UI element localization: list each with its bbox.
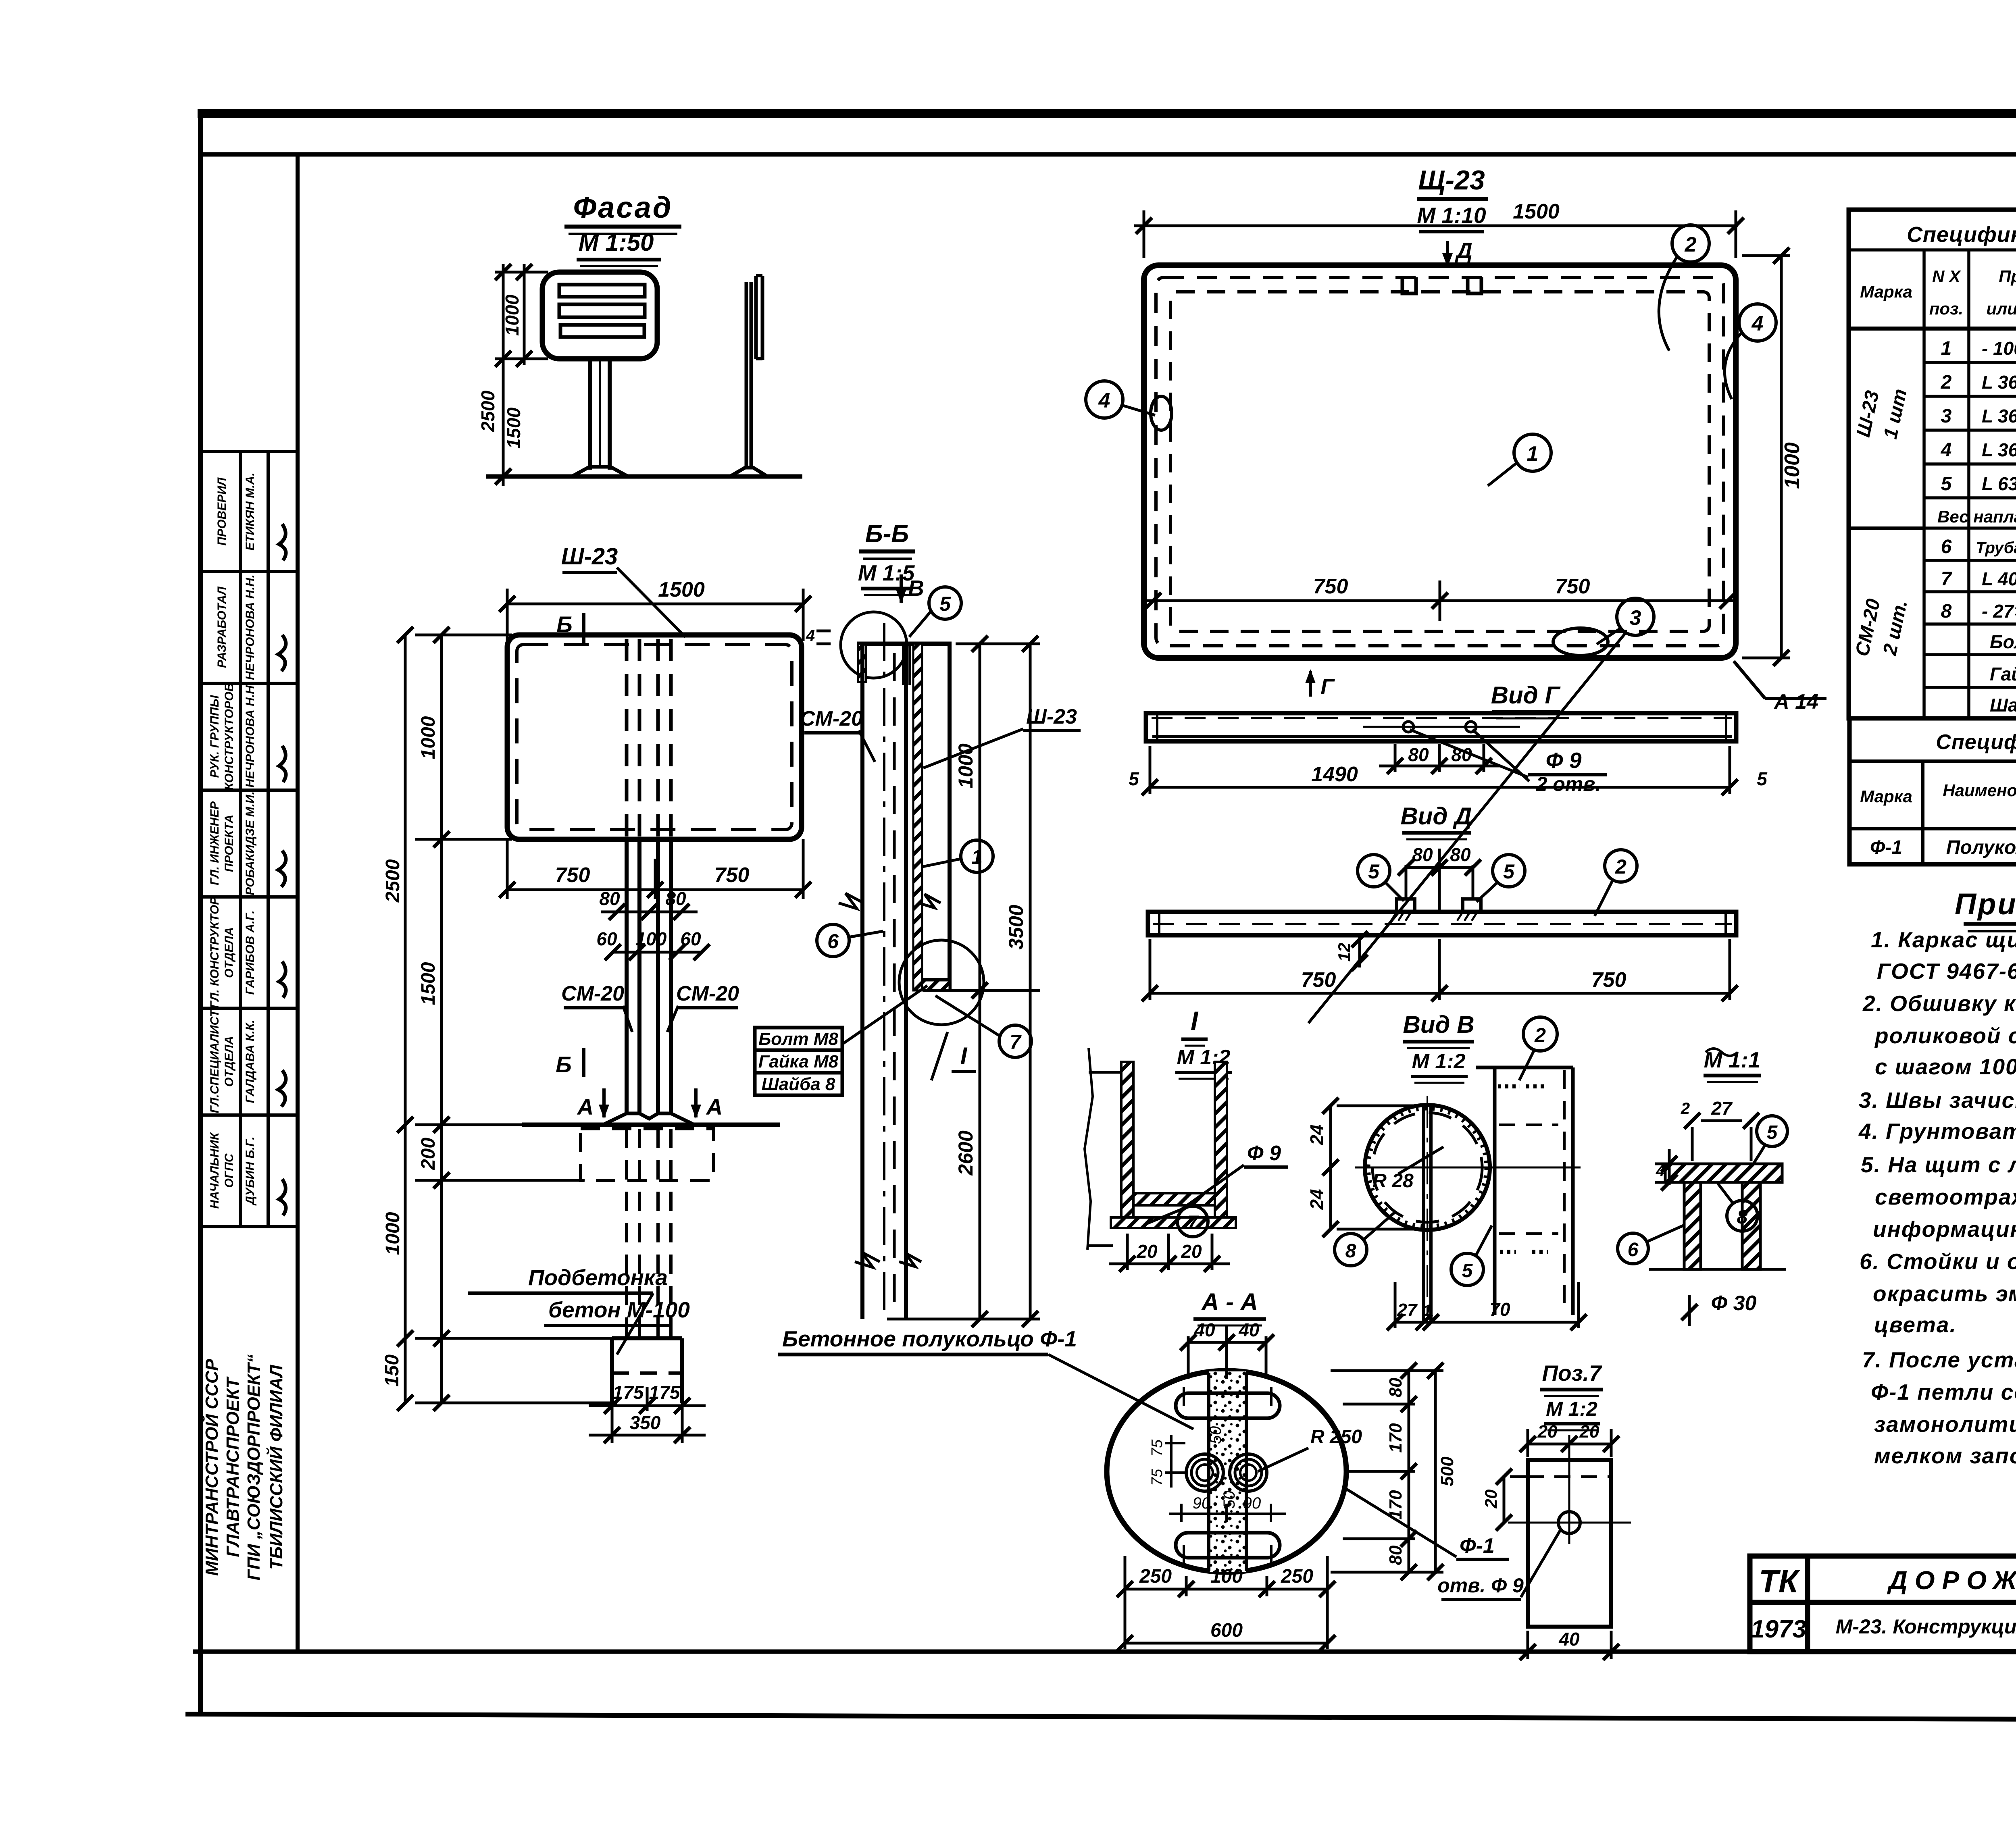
svg-text:светоотражающую пленку си: светоотражающую пленку синего цвета.	[1875, 1184, 2016, 1209]
svg-text:5: 5	[1503, 860, 1515, 883]
svg-text:ТБИЛИССКИЙ ФИЛИАЛ: ТБИЛИССКИЙ ФИЛИАЛ	[266, 1365, 286, 1570]
svg-text:М 1:50: М 1:50	[579, 229, 654, 256]
svg-text:Полукольцо: Полукольцо	[1946, 837, 2016, 858]
svg-text:ОГПС: ОГПС	[223, 1153, 236, 1188]
svg-text:М-23. Конструкция указатель: М-23. Конструкция указательного знака Ч.…	[1836, 1615, 2016, 1638]
svg-text:40: 40	[1238, 1319, 1260, 1340]
svg-text:ОТДЕЛА: ОТДЕЛА	[223, 927, 236, 978]
svg-text:1: 1	[971, 846, 983, 868]
svg-text:80: 80	[1386, 1545, 1406, 1565]
svg-text:Ф-1: Ф-1	[1870, 837, 1902, 858]
svg-text:Профиль: Профиль	[1999, 267, 2016, 286]
svg-text:24: 24	[1306, 1189, 1327, 1210]
svg-text:Поз.7: Поз.7	[1542, 1361, 1602, 1386]
svg-text:L 36×36×3: L 36×36×3	[1982, 406, 2016, 427]
svg-text:Труба Д=60,5=4: Труба Д=60,5=4	[1976, 539, 2016, 557]
svg-text:НАЧАЛЬНИК: НАЧАЛЬНИК	[208, 1132, 221, 1209]
svg-text:80: 80	[1450, 844, 1471, 865]
svg-text:2: 2	[1941, 372, 1952, 393]
svg-text:5: 5	[1767, 1122, 1778, 1143]
svg-text:КОНСТРУКТОРОВ: КОНСТРУКТОРОВ	[223, 683, 236, 790]
svg-text:А: А	[577, 1094, 594, 1119]
svg-text:ГАРИБОВ А.Г.: ГАРИБОВ А.Г.	[244, 910, 257, 995]
svg-text:150: 150	[381, 1354, 403, 1387]
svg-text:350: 350	[630, 1412, 661, 1433]
svg-text:3500: 3500	[1005, 905, 1027, 949]
svg-text:- 27×4: - 27×4	[1982, 601, 2016, 622]
svg-text:В: В	[908, 576, 924, 601]
svg-text:2600: 2600	[954, 1130, 977, 1176]
svg-text:5. На щит с лицевой сторо: 5. На щит с лицевой стороны наклеить	[1861, 1152, 2016, 1177]
svg-text:5: 5	[1462, 1260, 1473, 1282]
svg-text:175: 175	[649, 1382, 681, 1403]
svg-text:Ф 9: Ф 9	[1546, 748, 1582, 773]
svg-text:4. Грунтовать грунтом ГФ: 4. Грунтовать грунтом ГФ-0.20 ГОСТ 4056-…	[1858, 1119, 2016, 1144]
svg-text:Шайба 8: Шайба 8	[1990, 695, 2016, 716]
svg-text:ДУБИН Б.Г.: ДУБИН Б.Г.	[244, 1136, 257, 1206]
svg-text:8: 8	[1941, 601, 1952, 622]
svg-text:1973: 1973	[1751, 1615, 1806, 1643]
svg-text:1500: 1500	[418, 962, 439, 1005]
svg-text:бетон М-100: бетон М-100	[548, 1297, 690, 1322]
svg-text:роликовой сваркой прерывис: роликовой сваркой прерывистым швом	[1874, 1023, 2016, 1048]
svg-text:2: 2	[1681, 1100, 1690, 1117]
svg-text:750: 750	[714, 863, 750, 887]
svg-text:R 250: R 250	[1310, 1426, 1362, 1448]
svg-text:РАЗРАБОТАЛ: РАЗРАБОТАЛ	[215, 586, 229, 668]
svg-text:Вид Д: Вид Д	[1400, 803, 1472, 830]
svg-text:80: 80	[1412, 844, 1433, 865]
svg-text:с шагом 100-150 мм.: с шагом 100-150 мм.	[1875, 1054, 2016, 1079]
svg-text:N X: N X	[1932, 267, 1962, 286]
svg-text:1. Каркас щита варить элект: 1. Каркас щита варить электродами Э42	[1871, 927, 2016, 952]
svg-text:7: 7	[1187, 1212, 1199, 1234]
svg-text:6: 6	[1941, 536, 1952, 558]
svg-text:40: 40	[1194, 1319, 1215, 1340]
svg-text:РУК. ГРУППЫ: РУК. ГРУППЫ	[208, 695, 221, 778]
svg-text:Марка: Марка	[1860, 787, 1912, 806]
svg-text:1: 1	[1423, 1302, 1432, 1319]
svg-text:РОБАКИДЗЕ М.И.: РОБАКИДЗЕ М.И.	[244, 791, 257, 895]
svg-text:7: 7	[1941, 568, 1953, 590]
svg-text:75: 75	[1149, 1439, 1166, 1456]
svg-text:ГПИ „СОЮЗДОРПРОЕКТ“: ГПИ „СОЮЗДОРПРОЕКТ“	[244, 1354, 264, 1580]
svg-text:ГЛАВТРАНСПРОЕКТ: ГЛАВТРАНСПРОЕКТ	[223, 1376, 243, 1557]
svg-text:20: 20	[1537, 1422, 1558, 1442]
svg-text:1: 1	[1941, 338, 1952, 359]
svg-text:Вид В: Вид В	[1403, 1011, 1474, 1038]
svg-text:Ф 9: Ф 9	[1247, 1142, 1281, 1165]
svg-text:Гайка М8: Гайка М8	[1990, 664, 2016, 685]
svg-text:1: 1	[1527, 442, 1539, 466]
svg-text:А: А	[706, 1094, 723, 1119]
svg-text:1000: 1000	[502, 294, 523, 336]
svg-text:окрасить эмалью МА-12: окрасить эмалью МА-12 светло-серого	[1873, 1281, 2016, 1306]
svg-text:2500: 2500	[382, 859, 404, 903]
svg-text:Вид Г: Вид Г	[1491, 682, 1561, 709]
svg-text:5: 5	[1368, 860, 1380, 883]
svg-text:500: 500	[1437, 1456, 1457, 1486]
svg-text:5: 5	[1129, 768, 1139, 789]
svg-text:М 1:10: М 1:10	[1417, 203, 1486, 228]
svg-text:3: 3	[1941, 406, 1952, 427]
svg-text:250: 250	[1139, 1566, 1172, 1587]
svg-text:ПРОВЕРИЛ: ПРОВЕРИЛ	[215, 477, 229, 545]
svg-text:Марка: Марка	[1860, 282, 1912, 301]
svg-text:27: 27	[1711, 1098, 1733, 1119]
svg-text:20: 20	[1579, 1422, 1599, 1442]
svg-text:6: 6	[1628, 1239, 1639, 1261]
svg-text:1000: 1000	[1781, 442, 1804, 489]
svg-text:8: 8	[1737, 1207, 1748, 1228]
svg-text:М 1:5: М 1:5	[858, 560, 915, 585]
svg-text:ГАЛДАВА К.К.: ГАЛДАВА К.К.	[244, 1020, 257, 1103]
svg-text:80: 80	[1451, 744, 1472, 765]
svg-text:цвета.: цвета.	[1874, 1312, 1957, 1337]
svg-text:ДОРОЖНЫЕ ЗНАКИ: ДОРОЖНЫЕ ЗНАКИ	[1887, 1566, 2016, 1595]
svg-text:75: 75	[1149, 1469, 1166, 1486]
svg-text:1500: 1500	[1513, 200, 1560, 223]
svg-text:2: 2	[1615, 855, 1627, 878]
svg-text:информацию - из пленки бел: информацию - из пленки белого цвета.	[1873, 1217, 2016, 1242]
svg-text:750: 750	[1313, 575, 1348, 598]
svg-text:80: 80	[1408, 744, 1429, 765]
svg-text:НЕЧРОНОВА Н.Н.: НЕЧРОНОВА Н.Н.	[244, 574, 257, 680]
svg-text:40: 40	[1558, 1629, 1580, 1650]
svg-text:24: 24	[1306, 1124, 1327, 1145]
svg-text:мелком заполнителе.: мелком заполнителе.	[1874, 1443, 2016, 1468]
svg-text:50: 50	[1207, 1426, 1225, 1444]
svg-text:Примечания:: Примечания:	[1955, 887, 2016, 921]
svg-text:М 1:1: М 1:1	[1704, 1047, 1761, 1072]
svg-text:80: 80	[665, 888, 686, 909]
svg-text:3: 3	[1630, 606, 1641, 630]
svg-text:4: 4	[1098, 389, 1110, 412]
svg-text:175: 175	[613, 1382, 644, 1403]
svg-text:L 36×36×3: L 36×36×3	[1982, 372, 2016, 393]
svg-text:замонолитить бетоном М-: замонолитить бетоном М-200 на	[1874, 1412, 2016, 1437]
svg-text:8: 8	[1345, 1240, 1356, 1262]
svg-text:L 40×40×4: L 40×40×4	[1982, 568, 2016, 589]
svg-text:1000: 1000	[418, 716, 439, 759]
svg-text:5: 5	[1757, 768, 1768, 789]
svg-text:ЕТИКЯН М.А.: ЕТИКЯН М.А.	[244, 472, 257, 551]
svg-text:Шайба 8: Шайба 8	[762, 1074, 835, 1094]
svg-text:поз.: поз.	[1929, 299, 1963, 318]
svg-text:80: 80	[599, 888, 620, 909]
svg-text:Спецификация сборных фундаме: Спецификация сборных фундаментов	[1936, 730, 2016, 754]
svg-text:170: 170	[1386, 1423, 1406, 1453]
svg-text:60: 60	[596, 928, 617, 949]
svg-text:А 14: А 14	[1773, 690, 1818, 714]
svg-text:2: 2	[1685, 233, 1697, 256]
svg-text:750: 750	[1301, 968, 1336, 992]
svg-text:200: 200	[418, 1138, 439, 1170]
svg-text:100: 100	[636, 928, 667, 949]
svg-text:Болт М8: Болт М8	[758, 1029, 838, 1049]
svg-text:1500: 1500	[503, 407, 524, 449]
svg-text:750: 750	[555, 863, 590, 887]
svg-text:ГОСТ 9467-60. h шв = 3 мм.: ГОСТ 9467-60. h шв = 3 мм.	[1877, 959, 2016, 984]
svg-text:4: 4	[806, 627, 815, 645]
svg-text:Б: Б	[556, 1052, 572, 1077]
svg-text:Наименование: Наименование	[1943, 781, 2016, 800]
svg-text:НЕЧРОНОВА Н.Н: НЕЧРОНОВА Н.Н	[244, 685, 257, 788]
svg-text:ГЛ. ИНЖЕНЕР: ГЛ. ИНЖЕНЕР	[208, 801, 221, 885]
svg-text:20: 20	[1481, 1490, 1500, 1509]
svg-text:4: 4	[1656, 1162, 1665, 1180]
svg-text:4: 4	[1752, 312, 1764, 335]
svg-text:ПРОЕКТА: ПРОЕКТА	[223, 815, 236, 872]
svg-text:Ф 30: Ф 30	[1711, 1292, 1757, 1315]
svg-text:отв. Ф 9: отв. Ф 9	[1437, 1574, 1524, 1597]
svg-text:Д: Д	[1455, 238, 1472, 263]
svg-text:ОТДЕЛА: ОТДЕЛА	[223, 1036, 236, 1087]
svg-text:90: 90	[1243, 1494, 1261, 1512]
svg-text:1500: 1500	[658, 578, 705, 601]
svg-text:МИНТРАНССТРОЙ СССР: МИНТРАНССТРОЙ СССР	[201, 1359, 222, 1576]
svg-text:Бетонное полукольцо Ф-1: Бетонное полукольцо Ф-1	[782, 1326, 1077, 1351]
svg-text:600: 600	[1210, 1620, 1243, 1641]
svg-text:ТК: ТК	[1759, 1563, 1800, 1599]
svg-text:I: I	[1191, 1006, 1199, 1036]
svg-text:6: 6	[827, 930, 839, 953]
svg-text:СМ-20: СМ-20	[800, 707, 863, 730]
svg-text:L 63×63×4: L 63×63×4	[1982, 473, 2016, 494]
svg-text:Гайка М8: Гайка М8	[758, 1052, 839, 1072]
svg-text:Болт М8: Болт М8	[1990, 631, 2016, 652]
svg-text:12: 12	[1335, 943, 1354, 962]
svg-text:100: 100	[1210, 1566, 1243, 1587]
svg-text:- 1000×12: - 1000×12	[1982, 338, 2016, 359]
svg-text:L 36×36×3: L 36×36×3	[1982, 439, 2016, 460]
svg-text:или сечение: или сечение	[1986, 299, 2016, 318]
svg-text:5: 5	[939, 593, 951, 615]
svg-text:27: 27	[1397, 1300, 1418, 1320]
svg-text:1000: 1000	[382, 1212, 404, 1255]
svg-text:СМ-20: СМ-20	[561, 982, 624, 1005]
svg-text:80: 80	[1386, 1377, 1406, 1397]
svg-text:4: 4	[1941, 439, 1952, 461]
svg-text:2500: 2500	[477, 390, 498, 432]
svg-text:R 28: R 28	[1372, 1170, 1414, 1192]
svg-text:750: 750	[1591, 968, 1627, 992]
svg-text:7. После установки бетонны: 7. После установки бетонных полуколец	[1862, 1347, 2016, 1372]
svg-text:20: 20	[1181, 1241, 1202, 1262]
svg-text:Ш-23: Ш-23	[1026, 705, 1077, 728]
svg-text:Ф-1 петли согнуть и сварит: Ф-1 петли согнуть и сварить друг с друго…	[1871, 1379, 2016, 1404]
svg-text:60: 60	[680, 928, 701, 949]
svg-text:Подбетонка: Подбетонка	[528, 1265, 668, 1290]
svg-text:750: 750	[1555, 575, 1590, 598]
svg-text:7: 7	[1010, 1031, 1022, 1053]
svg-text:Ф-1: Ф-1	[1460, 1534, 1495, 1558]
svg-text:50: 50	[1220, 1491, 1238, 1509]
svg-text:2. Обшивку каркаса прив: 2. Обшивку каркаса приварить контактной	[1862, 991, 2016, 1016]
svg-text:90: 90	[1193, 1494, 1211, 1512]
svg-text:2: 2	[1534, 1024, 1546, 1047]
svg-text:Вес наплавл: металла 1.5%: Вес наплавл: металла 1.5%	[1937, 507, 2016, 526]
svg-text:ГЛ.СПЕЦИАЛИСТ: ГЛ.СПЕЦИАЛИСТ	[208, 1009, 221, 1113]
svg-text:70: 70	[1489, 1299, 1510, 1320]
svg-text:А - А: А - А	[1201, 1288, 1258, 1315]
svg-text:1490: 1490	[1311, 763, 1358, 786]
svg-text:5: 5	[1941, 473, 1952, 495]
svg-text:М 1:2: М 1:2	[1546, 1398, 1597, 1420]
svg-text:Спецификация металла ст-3, Г: Спецификация металла ст-3, ГОСТ 380-71	[1907, 223, 2016, 247]
svg-text:20: 20	[1136, 1241, 1158, 1262]
svg-text:I: I	[960, 1042, 968, 1069]
svg-text:М 1:2: М 1:2	[1412, 1050, 1466, 1073]
svg-text:Г: Г	[1320, 674, 1335, 699]
svg-text:250: 250	[1281, 1566, 1313, 1587]
svg-text:ГЛ. КОНСТРУКТОР: ГЛ. КОНСТРУКТОР	[208, 897, 221, 1008]
svg-text:Фасад: Фасад	[573, 191, 673, 224]
svg-text:6. Стойки и обратную сторо: 6. Стойки и обратную сторону щита	[1860, 1249, 2016, 1274]
svg-text:Щ-23: Щ-23	[1418, 165, 1485, 196]
svg-text:Ш-23: Ш-23	[561, 543, 618, 570]
svg-text:3. Швы зачистить, острые кр: 3. Швы зачистить, острые кромки притупит…	[1859, 1088, 2016, 1113]
svg-text:Б-Б: Б-Б	[865, 520, 909, 548]
svg-text:СМ-20: СМ-20	[676, 982, 739, 1005]
